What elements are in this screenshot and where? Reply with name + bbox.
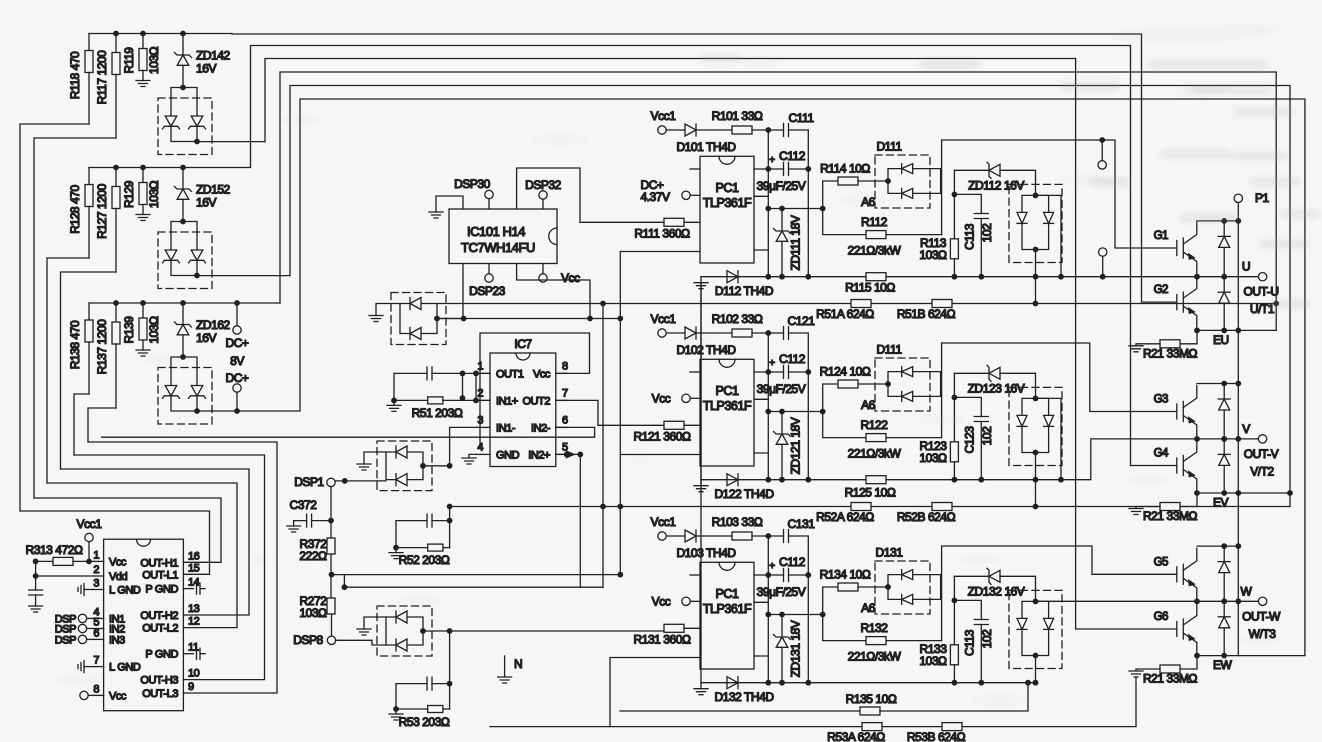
wire bridge bottom link channel1 <box>1035 250 1037 304</box>
capacitor C113 102 <box>954 600 994 682</box>
wire gate feed channel3 <box>942 546 1177 641</box>
terminal Vcc channel3 <box>652 594 700 608</box>
pin 7 L&#160;GND <box>93 655 141 674</box>
transistor G5 <box>1177 548 1197 600</box>
bus emitter reference channel3 <box>701 601 1258 682</box>
resistor R118 470 <box>68 34 93 125</box>
terminal Vcc IC101 <box>539 264 580 286</box>
terminal Vcc1 left <box>77 517 103 564</box>
resistor R139 103 <box>122 303 161 356</box>
resistor R119 103 <box>122 34 161 87</box>
resistor R313 472 <box>26 543 94 565</box>
node DSP bus 2 <box>342 584 348 590</box>
pin 16 OUT-H1 <box>140 550 199 569</box>
resistor R133 103 <box>919 576 958 682</box>
optocoupler PC1 TLP361F channel3 <box>690 562 826 669</box>
resistor R137 1200 <box>95 303 120 408</box>
pin 5 IN2 <box>93 617 125 636</box>
pin 6 IN3 <box>93 627 125 646</box>
pin 8 Vcc <box>93 683 127 702</box>
zener diode ZD142 16V <box>175 34 231 88</box>
collector bus G5 <box>1197 545 1238 547</box>
wire bridge top link channel2 <box>1036 398 1062 479</box>
terminal Vcc channel2 <box>652 391 700 405</box>
resistor R122 2210/3kW <box>823 412 942 461</box>
staircase wires from block 1 <box>20 124 89 511</box>
resistor R131 360 <box>634 624 700 646</box>
connector circle gate upper <box>1098 140 1106 169</box>
diode bridge channel1 <box>1009 184 1062 262</box>
wire staircase rail 1 to pin15 <box>20 511 210 574</box>
label OUT-W W/T3 <box>1242 609 1281 641</box>
resistor capacitor cluster R51 203 <box>387 367 476 412</box>
wire R53 to cluster node <box>449 631 451 709</box>
diode D112 TH4D ground <box>694 271 774 298</box>
IC7 pin 2 IN1+ <box>477 387 518 407</box>
pin 3 L&#160;GND <box>93 578 141 597</box>
ground IC7 GND pin <box>462 454 477 464</box>
capacitor C112 39uF <box>757 130 812 277</box>
pin 4 IN1 <box>93 606 125 625</box>
optocoupler PC1 TLP361F channel2 <box>690 359 826 466</box>
bus wire B3 to G6 gate <box>265 59 1177 630</box>
resistor R52A 624&#937; <box>447 503 1290 525</box>
wire R51 rows to IC7 <box>463 373 491 400</box>
emitter bus EU <box>1197 329 1276 331</box>
connector circle gate lower <box>1099 248 1107 277</box>
terminal Vcc1 channel2 <box>651 312 685 337</box>
rail P1 vertical <box>1237 203 1239 656</box>
capacitor P GND <box>197 583 206 594</box>
pin 15 OUT-L1 <box>142 562 199 581</box>
capacitor C131 <box>784 517 816 683</box>
resistor R111 360 <box>580 218 700 240</box>
left supply block 2 top rail <box>89 167 251 169</box>
wire gate feed channel1 <box>942 140 1177 248</box>
freewheel diode G1 <box>1223 221 1225 277</box>
output bus U <box>1242 260 1267 281</box>
diode D102 TH4D <box>676 327 736 357</box>
resistor R138 470 <box>68 303 93 394</box>
resistor R113 103 <box>919 170 958 276</box>
IC7 pin 3 IN1- <box>477 414 516 434</box>
freewheel diode G5 <box>1223 546 1225 601</box>
IC7 pin 6 IN2- <box>531 414 568 434</box>
optocoupler PC1 TLP361F channel1 <box>690 156 826 263</box>
terminal DSP8 <box>293 614 335 647</box>
capacitor C121 <box>784 314 816 480</box>
terminal DSP pin4 <box>55 613 94 625</box>
bus wire B2 to G4 gate <box>251 46 1177 466</box>
terminal DSP32 <box>525 178 562 209</box>
IC IC101 TC7WH14FU body <box>449 209 557 264</box>
terminal DSP pin6 <box>55 634 94 646</box>
capacitor P GND <box>197 648 206 659</box>
IC7 pin 4 GND <box>477 441 520 461</box>
driver IC U1 body <box>104 539 184 711</box>
transistor G3 <box>1177 386 1197 438</box>
pin 1 Vcc <box>93 549 127 568</box>
pin 12 OUT-L2 <box>142 616 199 635</box>
resistor R134 10&#937; <box>820 568 888 615</box>
IC7 pin 1 OUT1 <box>477 360 524 380</box>
terminal DC+ lower <box>226 371 249 411</box>
IC7 pin 5 IN2+ <box>528 441 568 461</box>
diode pair box 2 <box>158 219 212 289</box>
zener diode ZD152 16V <box>175 168 231 222</box>
node R372 bus <box>329 572 335 578</box>
terminal P1 <box>1234 191 1269 205</box>
transistor G6 <box>1177 603 1197 655</box>
resistor R121 360 <box>598 421 700 443</box>
emitter bus EV <box>1197 492 1290 494</box>
wire R52 to gate bus <box>449 507 451 548</box>
wire IC101 pin column <box>462 264 464 319</box>
wire PC1 ch1 lower-left stub <box>620 251 700 253</box>
wire DSP1 to cluster <box>336 480 386 482</box>
collector bus G1 <box>1197 220 1238 222</box>
resistor R125 10&#937; <box>845 476 896 500</box>
pin 10 OUT-H3 <box>140 668 199 687</box>
zener diode ZD111 18V <box>774 209 803 277</box>
wire DSP32 loop to R111 <box>517 168 580 222</box>
vertical bus x620 <box>619 252 621 575</box>
freewheel diode G6 <box>1223 601 1225 655</box>
resistor R372 222 <box>299 521 335 575</box>
wire ch3 cluster output to R131 <box>450 630 664 632</box>
bus wire B5 to EV <box>197 86 1290 507</box>
resistor R112 2210/3kW <box>823 209 942 258</box>
resistor R103 33&#937; <box>712 515 784 540</box>
resistor R53A 624&#937; <box>490 677 1136 742</box>
resistor R114 10&#937; <box>820 162 888 209</box>
resistor R129 103 <box>122 168 161 221</box>
junction DC+ lower on diode wire <box>234 408 240 414</box>
zener diode ZD131 18V <box>774 615 803 683</box>
IC7 pin 7 OUT2 <box>522 387 568 407</box>
zener diode ZD112 16V <box>954 162 1035 195</box>
resistor R117 1200 <box>95 34 120 139</box>
terminal DSP1 <box>294 475 335 521</box>
label OUT-V V/T2 <box>1244 447 1279 479</box>
pin 9 OUT-L3 <box>142 681 194 700</box>
diode bridge channel2 <box>1009 387 1062 465</box>
input diode cluster DSP8 channel3 <box>357 606 453 656</box>
ground pin3 <box>78 584 94 596</box>
resistor R51B 624&#937; <box>897 300 956 322</box>
freewheel diode G3 <box>1223 384 1225 439</box>
diode pair box 1 <box>158 85 212 155</box>
terminal pin8 <box>80 691 94 699</box>
zener diode ZD121 18V <box>774 412 803 480</box>
transistor G1 <box>1177 222 1197 274</box>
collector bus G3 <box>1197 383 1238 385</box>
pin 13 OUT-H2 <box>140 603 199 622</box>
transistor G4 <box>1177 440 1197 492</box>
wire ch1 input to PC1 <box>438 318 621 320</box>
wire IC7 pin5 stub <box>556 451 583 587</box>
scan ghost text <box>700 55 1320 308</box>
transistor G2 <box>1177 276 1197 328</box>
pin 11 P&#160;GND <box>145 642 198 661</box>
diode pair D111 A6 <box>861 343 940 413</box>
wire IC101 bottom loop <box>517 264 590 319</box>
wire IC7 pin8 surround <box>480 333 590 448</box>
terminal DC+ upper <box>226 303 249 350</box>
zener diode ZD123 16V <box>954 365 1035 398</box>
output bus W <box>1241 584 1267 605</box>
capacitor C123 102 <box>954 397 994 479</box>
wire IC7 pin6 jog <box>102 427 595 437</box>
freewheel diode G2 <box>1223 277 1225 331</box>
diode D103 TH4D <box>676 530 736 560</box>
diode D122 TH4D ground <box>694 283 774 501</box>
zener diode ZD132 16V <box>954 568 1035 601</box>
wire staircase rail 3 to pin12 <box>47 483 237 628</box>
resistor R132 2210/3kW <box>823 615 942 664</box>
pin 14 P&#160;GND <box>145 577 199 596</box>
ground IC101 top left <box>429 196 463 218</box>
capacitor C111 <box>784 111 815 277</box>
resistor R51A 624&#937; <box>438 300 1277 322</box>
terminal DSP30 <box>454 177 493 209</box>
resistor R21 33M EW <box>1129 656 1198 686</box>
bus emitter reference channel1 <box>701 276 1258 278</box>
bus emitter reference channel2 <box>701 439 1258 480</box>
left supply block 3 top rail <box>89 302 280 304</box>
wire staircase rail 4 to pin13 <box>61 469 250 615</box>
resistor capacitor cluster R52 203 <box>389 514 450 559</box>
terminal Vcc1 channel3 <box>651 515 685 540</box>
wire PC1 ch3 lower-left stub <box>610 658 700 727</box>
label OUT-U U/T1 <box>1243 285 1278 317</box>
emitter bus EW <box>1197 655 1305 657</box>
resistor capacitor cluster R53 203 <box>389 677 450 720</box>
diode D101 TH4D <box>676 124 736 154</box>
wire bridge bottom link channel2 <box>1035 453 1037 507</box>
zener diode ZD162 16V <box>175 303 231 357</box>
diode pair box 3 <box>158 354 212 424</box>
resistor R21 33M EV <box>1129 493 1198 523</box>
resistor R135 10&#937; <box>620 683 1028 715</box>
staircase wires from block 3 <box>74 394 89 455</box>
freewheel diode G4 <box>1223 439 1225 493</box>
diode pair D131 A6 <box>861 546 940 616</box>
capacitor C113 102 <box>954 194 994 276</box>
input diode cluster channel1 <box>369 293 467 345</box>
terminal DSP23 <box>469 264 506 299</box>
diode pair D111 A6 <box>861 140 940 210</box>
resistor R21 33M EU <box>1129 330 1198 360</box>
pin 2 Vdd <box>93 564 127 583</box>
IC7 pin 8 Vcc <box>533 360 568 380</box>
wire staircase rail 5 to pin10 <box>74 455 265 680</box>
resistor R102 33&#937; <box>712 312 784 337</box>
resistor R52B 624&#937; <box>897 503 956 525</box>
resistor R53B 624&#937; <box>907 723 966 742</box>
wire bridge top link channel1 <box>1036 195 1062 276</box>
bus wire B1 to G2 gate <box>232 34 1177 302</box>
capacitor C372 <box>287 498 334 532</box>
diode bridge channel3 <box>1009 590 1062 668</box>
resistor R123 103 <box>919 373 958 479</box>
wire DSP8 to cluster <box>336 640 386 645</box>
wire PC1 ch2 lower-left stub <box>620 454 700 456</box>
bus wire B4 to EU <box>280 72 1276 330</box>
diode D132 TH4D ground <box>694 283 774 704</box>
op-amp IC7 body <box>490 337 556 467</box>
resistor R115 10&#937; <box>845 273 895 295</box>
ground N <box>498 656 523 683</box>
resistor R127 1200 <box>95 168 120 273</box>
wire staircase rail 2 to pin16 <box>34 498 221 562</box>
wire IC7 pin7 to R121 <box>556 400 598 425</box>
capacitor C112 39uF <box>757 333 812 480</box>
left supply block 1 top rail <box>89 33 232 35</box>
wire staircase rail 6 to pin9 <box>88 442 277 693</box>
capacitor at Vdd <box>29 559 94 613</box>
resistor R272 103 <box>299 575 335 620</box>
staircase wires from block 2 <box>47 258 89 483</box>
resistor R101 33&#937; <box>712 109 784 134</box>
resistor R128 470 <box>68 168 93 259</box>
ground pin7 <box>78 661 94 673</box>
bus wire B6 to EW <box>197 99 1305 656</box>
wire ch2 cluster to IC7 pin3 <box>450 427 477 465</box>
wire block1 diode output <box>197 141 265 143</box>
terminal DSP pin5 <box>55 624 94 636</box>
wire gate feed channel2 <box>942 343 1177 438</box>
terminal DC+ 4.37V <box>640 178 700 204</box>
resistor R124 10&#937; <box>820 365 888 412</box>
vertical bus x603 <box>602 304 604 588</box>
terminal Vcc1 channel1 <box>651 109 685 134</box>
input diode cluster DSP1 channel2 <box>357 441 453 491</box>
capacitor C112 39uF <box>757 536 812 683</box>
output bus V <box>1242 422 1267 443</box>
wire bridge bottom link channel3 <box>1035 656 1037 683</box>
